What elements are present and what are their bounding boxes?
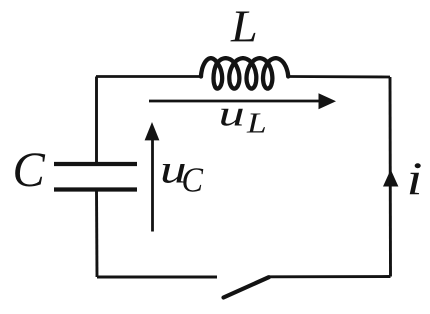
capacitor C top plate [54, 162, 137, 166]
svg-text:L: L [230, 2, 258, 52]
wire right vertical [389, 77, 392, 277]
voltage arrow u_L shaft [149, 100, 322, 103]
capacitor C bottom plate [54, 187, 137, 191]
voltage arrow u_C head [145, 122, 160, 140]
current arrowhead i [383, 170, 398, 187]
svg-text:u: u [219, 94, 245, 134]
inductor L coil [201, 58, 288, 88]
wire bottom-right segment [269, 275, 391, 278]
wire top-left segment [96, 75, 200, 78]
switch lever [224, 277, 269, 297]
svg-text:L: L [246, 109, 267, 140]
voltage arrow u_C shaft [151, 138, 154, 232]
wire top-right segment [289, 75, 390, 78]
wire left vertical lower [95, 190, 98, 278]
wire left vertical upper [95, 77, 98, 165]
svg-text:i: i [407, 154, 423, 205]
svg-text:C: C [13, 141, 46, 197]
wire bottom-left segment [97, 276, 217, 279]
voltage arrow u_L head [319, 93, 337, 109]
svg-text:C: C [182, 161, 204, 199]
